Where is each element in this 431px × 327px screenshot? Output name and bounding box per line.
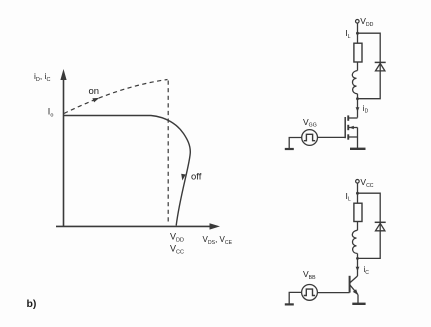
svg-text:on: on [89, 86, 100, 97]
wire gate [318, 136, 346, 138]
ground VBB [285, 303, 294, 305]
svg-text:VGG: VGG [303, 117, 317, 129]
source V_GG [302, 130, 318, 146]
wire L to drain [357, 94, 359, 118]
svg-text:iD: iD [363, 104, 369, 115]
junction i_D node [356, 97, 359, 100]
wire VGG left lead [289, 138, 302, 149]
svg-text:VDS, VCE: VDS, VCE [203, 235, 233, 246]
svg-text:off: off [191, 172, 202, 183]
inductor L2 [352, 230, 357, 253]
svg-text:VDD: VDD [360, 16, 373, 28]
svg-text:iC: iC [364, 265, 370, 276]
ground MOSFET source [350, 148, 366, 150]
wire VDD down [357, 23, 359, 43]
transistor Q1 (n-MOSFET) [345, 115, 357, 148]
dashed V_DD vertical line [167, 81, 169, 225]
svg-text:iD, iC: iD, iC [34, 71, 51, 83]
source V_BB [302, 285, 318, 301]
svg-text:Io: Io [48, 107, 54, 119]
node VDD terminal [356, 20, 360, 24]
wire VBB left lead [289, 292, 301, 304]
svg-text:VDD: VDD [170, 232, 184, 244]
junction top 2 [356, 192, 359, 195]
wire R to L [357, 62, 359, 71]
svg-text:IL: IL [345, 28, 350, 40]
junction top [356, 32, 359, 35]
resistor R1 [354, 43, 362, 62]
wire diode branch [358, 33, 381, 99]
ground VGG [285, 148, 294, 150]
transistor Q2 (BJT npn) [350, 276, 359, 304]
junction i_C node [356, 257, 359, 260]
wire diode branch 2 [358, 193, 381, 258]
diode D1 [375, 62, 386, 71]
wire base [317, 292, 349, 294]
y-axis [60, 69, 66, 227]
ground BJT emitter [352, 303, 365, 305]
x-axis [56, 223, 220, 229]
off arrow [181, 174, 186, 181]
node VCC terminal [356, 180, 360, 184]
wire R2 to L2 [357, 222, 359, 231]
diode D2 [375, 222, 386, 231]
svg-text:IL: IL [346, 191, 351, 203]
on trajectory (dashed) [64, 80, 168, 114]
svg-text:b): b) [27, 298, 37, 310]
svg-text:VBB: VBB [303, 269, 316, 281]
on arrow [92, 98, 99, 103]
wire L2 to collector [357, 254, 359, 277]
inductor L1 [352, 71, 357, 94]
resistor R2 [354, 203, 362, 221]
svg-text:VCC: VCC [360, 177, 373, 189]
wire VCC down [357, 183, 359, 203]
current arrow i_C [356, 267, 360, 271]
current arrow i_D [356, 107, 360, 111]
off trajectory (solid) [64, 116, 190, 226]
svg-text:VCC: VCC [170, 244, 184, 256]
